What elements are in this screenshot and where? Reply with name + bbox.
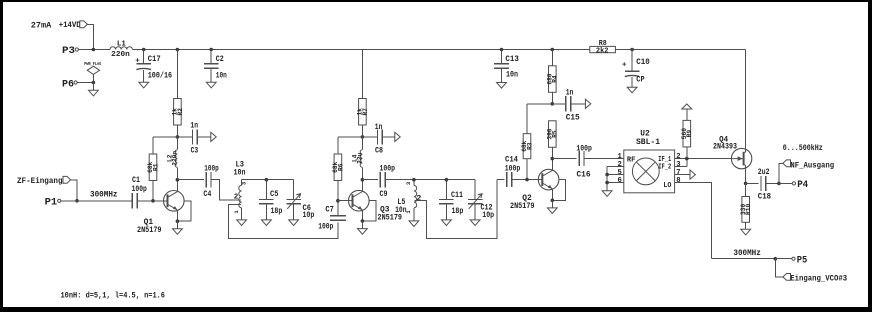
power flag PWR_FLAG <box>84 62 101 82</box>
ground (C2) <box>206 82 216 88</box>
svg-text:C16: C16 <box>577 172 591 180</box>
wire LO to P5 <box>711 258 775 260</box>
svg-text:C8: C8 <box>375 147 383 155</box>
wire <box>501 50 503 64</box>
wire LO route down <box>675 183 712 259</box>
svg-text:220n: 220n <box>172 151 179 166</box>
capacitor C4 <box>203 165 219 199</box>
svg-text:2N4393: 2N4393 <box>713 143 737 152</box>
svg-text:22u: 22u <box>357 152 364 163</box>
node unconnected arrow (C8) <box>395 132 400 141</box>
svg-text:C14: C14 <box>505 157 518 165</box>
wire <box>413 208 415 221</box>
wire bias to L4 <box>361 137 363 150</box>
wire to ground <box>92 83 94 91</box>
wire <box>265 180 267 200</box>
resistor R7 <box>357 99 369 126</box>
svg-text:C11: C11 <box>451 192 463 200</box>
node junction <box>209 48 213 52</box>
wire source to R10 <box>745 183 747 196</box>
svg-text:1n: 1n <box>190 123 198 131</box>
ground (U2) <box>602 191 612 197</box>
wire <box>552 103 565 105</box>
node junction <box>500 48 504 52</box>
svg-text:P6: P6 <box>62 78 74 90</box>
capacitor C17 <box>135 50 172 81</box>
wire rail L1 to R8 <box>132 49 589 51</box>
wire R5 to C16 line <box>551 147 553 158</box>
node Q3 bias node <box>361 135 365 139</box>
svg-text:NF_Ausgang: NF_Ausgang <box>790 162 834 171</box>
inductor L2 <box>167 150 179 168</box>
op-amp U2 (mixer SBL-1) <box>618 129 681 192</box>
wire to P5 <box>775 258 792 260</box>
capacitor C12 (trimmer) <box>468 180 495 220</box>
wire Q3 emitter <box>361 210 363 221</box>
wire C4 to L3 tap <box>211 180 241 201</box>
svg-text:2: 2 <box>618 161 622 169</box>
wire <box>177 136 192 138</box>
node label Eingang_VCO#3 <box>783 274 847 284</box>
ground (C5) <box>262 220 272 226</box>
svg-text:C17: C17 <box>148 56 161 64</box>
wire to P4 <box>779 182 792 184</box>
node unconnected arrow (C3) <box>211 132 216 141</box>
ground (C11) <box>442 220 452 226</box>
connector P4 <box>792 179 808 191</box>
wire R4 to divider <box>551 92 553 104</box>
svg-text:C15: C15 <box>566 114 580 122</box>
node Q3 emitter node <box>361 219 365 223</box>
node Q1 bias node <box>176 135 180 139</box>
wire Q3 emitter to ground <box>361 221 363 229</box>
svg-text:300MHz: 300MHz <box>90 191 118 200</box>
wire <box>143 50 145 64</box>
svg-text:C3: C3 <box>191 147 199 155</box>
node Q3 collector node <box>361 178 365 182</box>
wire bias node to R1 <box>153 136 177 138</box>
wire C10 to ground <box>631 77 633 87</box>
capacitor C9 <box>380 166 396 199</box>
resistor R1 <box>147 154 159 181</box>
wire C1 to Q1 base <box>137 200 167 202</box>
wire rail down to Q4 drain <box>745 50 747 152</box>
inductor L1 <box>110 40 132 59</box>
svg-text:10n: 10n <box>506 72 518 80</box>
wire bias node to R6 <box>338 136 363 138</box>
node C5 node <box>265 178 269 182</box>
wire U2 pin7 stub <box>675 174 690 176</box>
svg-text:100p: 100p <box>318 224 333 232</box>
power flag +14VD <box>59 20 88 30</box>
wire rail P3 to L1 <box>78 49 110 51</box>
svg-text:C10: C10 <box>636 59 650 67</box>
wire R10 to ground <box>745 222 747 229</box>
wire divider to R3 <box>527 103 552 105</box>
inductor L3 <box>233 161 247 220</box>
svg-text:2: 2 <box>676 153 680 161</box>
node L5 top node <box>412 178 416 182</box>
resistor R6 <box>332 154 344 181</box>
capacitor C6 (trimmer) <box>286 180 314 220</box>
ground (Q1) <box>173 229 183 235</box>
wire bias to R6 <box>337 137 339 154</box>
svg-text:1: 1 <box>618 153 623 161</box>
wire <box>293 180 295 200</box>
wire L3 tap to C7 <box>229 205 338 239</box>
resistor R9 <box>681 120 693 146</box>
wire to VCO flag <box>775 259 783 277</box>
capacitor C14 <box>505 157 521 188</box>
svg-text:R10: R10 <box>745 204 752 215</box>
wire <box>631 50 633 71</box>
svg-text:2u2: 2u2 <box>758 169 770 177</box>
ground (C6) <box>289 220 299 226</box>
wire Q1 emitter <box>176 210 178 221</box>
wire C7 to base node <box>337 201 339 216</box>
wire U2 IF_1 to Q4 gate <box>675 158 732 160</box>
wire divider to R3 <box>526 104 528 134</box>
node IF node <box>685 157 689 161</box>
wire <box>241 208 243 220</box>
node unconnected arrow (U2 pin7) <box>690 170 695 179</box>
wire C12 to ground <box>474 204 476 220</box>
svg-text:C9: C9 <box>380 191 388 199</box>
capacitor C2 <box>204 50 227 81</box>
wire C11 to ground <box>445 204 447 220</box>
wire Q2 collector <box>551 159 553 171</box>
wire U2 pin6 stub <box>607 182 624 184</box>
wire C3 to arrow <box>197 136 211 138</box>
svg-text:C1: C1 <box>132 177 140 185</box>
node Q1 emitter node <box>176 219 180 223</box>
resistor R3 <box>521 134 533 159</box>
node junction <box>92 48 96 52</box>
node C11 node <box>445 178 449 182</box>
ground (C17) <box>139 82 149 88</box>
connector P6 <box>62 78 77 90</box>
svg-text:18p: 18p <box>452 208 464 216</box>
svg-text:100p: 100p <box>505 165 521 173</box>
svg-text:100p: 100p <box>576 146 592 154</box>
svg-text:1n: 1n <box>375 124 383 132</box>
svg-text:R5: R5 <box>552 130 559 138</box>
node Q3 base node <box>336 199 340 203</box>
wire R2 to bias node <box>176 125 178 137</box>
resistor R10 <box>740 197 752 223</box>
power symbol (above R9) <box>682 104 692 109</box>
ground (L5) <box>409 221 419 227</box>
wire <box>362 136 377 138</box>
node junction <box>92 81 96 85</box>
wire C18 to P4 <box>766 182 779 184</box>
resistor R4 <box>547 66 559 93</box>
ground (Q2) <box>547 208 557 214</box>
node junction <box>176 48 180 52</box>
wire Q2 case loop <box>552 180 565 201</box>
ground (C12) <box>470 220 480 226</box>
transistor Q3 <box>349 190 403 222</box>
inductor L4 <box>352 150 364 168</box>
node junction <box>551 48 555 52</box>
svg-text:C4: C4 <box>203 191 211 199</box>
capacitor C5 <box>259 180 282 216</box>
svg-text:R7: R7 <box>362 108 369 116</box>
capacitor C7 <box>318 206 346 231</box>
svg-text:100p: 100p <box>132 186 147 194</box>
wire C16 to U2 pin1 <box>584 158 624 160</box>
node label NF_Ausgang <box>783 160 834 171</box>
wire bias to R1 <box>152 137 154 154</box>
svg-text:C2: C2 <box>216 56 224 64</box>
wire tank1 top <box>242 179 294 181</box>
svg-text:10p: 10p <box>482 212 494 220</box>
svg-text:R2: R2 <box>177 108 184 116</box>
wire R9 to power <box>686 109 688 120</box>
wire collector to C4 <box>177 179 203 181</box>
node R1-base junction <box>151 199 155 203</box>
wire C8 to arrow <box>382 136 395 138</box>
svg-text:3: 3 <box>676 161 680 169</box>
capacitor C11 <box>439 180 463 216</box>
transistor Q1 <box>137 191 184 236</box>
svg-text:R1: R1 <box>152 163 159 171</box>
connector P1 <box>45 197 61 209</box>
ground (L3) <box>237 220 247 226</box>
wire to C14 <box>497 179 505 181</box>
svg-text:P4: P4 <box>797 179 808 191</box>
resistor R2 <box>172 99 184 126</box>
wire collector to C9 <box>362 179 378 181</box>
wire Q2 emitter <box>551 189 553 200</box>
svg-text:10nH: d=5,1, l=4.5, n=1.6: 10nH: d=5,1, l=4.5, n=1.6 <box>61 291 166 301</box>
resistor R5 <box>547 121 559 148</box>
wire to Q3 base <box>338 200 353 202</box>
node junction <box>605 173 609 177</box>
svg-text:C13: C13 <box>505 56 519 64</box>
svg-text:P1: P1 <box>45 197 58 209</box>
svg-text:IF_2: IF_2 <box>658 164 671 172</box>
wire rail R8 to Q4 <box>615 49 745 51</box>
svg-text:+: + <box>622 61 627 69</box>
svg-text:7: 7 <box>676 169 680 177</box>
connector P3 <box>62 45 78 57</box>
capacitor C1 <box>132 177 147 208</box>
svg-text:P5: P5 <box>797 254 808 266</box>
wire ZF to input line <box>71 180 77 201</box>
node R3-base node <box>525 178 529 182</box>
wire U2 IF_2 stub <box>675 166 687 168</box>
wire C13 to ground <box>501 68 503 82</box>
svg-text:L1: L1 <box>117 40 126 48</box>
svg-text:6: 6 <box>618 177 622 185</box>
wire C14 to Q2 base <box>512 179 543 181</box>
svg-text:L3: L3 <box>236 161 245 169</box>
node junction <box>630 48 634 52</box>
wire P6 to ground node <box>77 82 93 84</box>
wire L4 to collector <box>361 167 363 179</box>
svg-text:220n: 220n <box>111 51 130 59</box>
capacitor C16 <box>576 146 592 180</box>
wire C6 to ground <box>293 204 295 220</box>
wire C17 to ground <box>143 70 145 83</box>
svg-text:300MHz: 300MHz <box>733 249 761 258</box>
svg-text:LO: LO <box>663 182 671 190</box>
svg-text:1: 1 <box>233 210 240 214</box>
node Q1 collector node <box>176 178 180 182</box>
svg-text:5: 5 <box>618 169 622 177</box>
svg-text:100p: 100p <box>380 166 396 174</box>
wire L2 to collector <box>176 167 178 179</box>
wire <box>474 180 476 200</box>
wire Q3 case loop <box>362 201 375 221</box>
node NF node <box>777 182 781 186</box>
inductor L5 <box>395 180 421 221</box>
wire L5 tap to C14 <box>414 180 497 239</box>
wire bias to L2 <box>176 137 178 150</box>
ground (C13) <box>497 83 507 89</box>
ground (C10) <box>627 87 637 93</box>
wire <box>413 180 415 186</box>
node junction <box>142 48 146 52</box>
wire Q1 emitter to ground <box>176 221 178 229</box>
capacitor C3 <box>177 123 198 156</box>
wire <box>241 180 243 186</box>
svg-text:2k2: 2k2 <box>596 48 609 56</box>
transistor Q4 <box>713 135 752 168</box>
node Q2 collector node <box>551 157 555 161</box>
wire to NF flag <box>779 163 783 183</box>
svg-text:R6: R6 <box>337 163 344 171</box>
wire P1 to C1 <box>61 200 132 202</box>
wire Q4 source <box>745 165 747 183</box>
svg-text:10p: 10p <box>303 212 315 220</box>
wire R7 to bias node <box>361 125 363 137</box>
capacitor C15 <box>552 89 580 122</box>
wire R3 to Q2 base <box>526 159 528 180</box>
svg-text:ZF-Eingang: ZF-Eingang <box>17 177 63 186</box>
wire R9 to IF node <box>686 147 688 159</box>
wire C5 to ground <box>265 204 267 220</box>
svg-text:2: 2 <box>416 193 421 203</box>
svg-text:Eingang_VCO#3: Eingang_VCO#3 <box>790 275 847 284</box>
svg-text:C18: C18 <box>758 194 771 202</box>
wire <box>445 180 447 200</box>
node Q2 emitter node <box>551 199 555 203</box>
svg-text:C5: C5 <box>270 191 279 199</box>
svg-text:10n: 10n <box>216 72 227 80</box>
wire rail to R4 <box>551 50 553 66</box>
wire Q1 collector <box>176 180 178 192</box>
connector P5 <box>792 254 807 266</box>
capacitor C8 <box>362 124 383 156</box>
svg-text:R3: R3 <box>526 142 533 150</box>
wire R1 to base <box>152 181 154 201</box>
svg-text:2N5179: 2N5179 <box>510 202 535 211</box>
wire U2 ground bus <box>606 167 608 191</box>
svg-text:P3: P3 <box>62 45 75 57</box>
wire Q1 case loop <box>177 201 190 221</box>
svg-text:100/16: 100/16 <box>148 72 173 80</box>
transistor Q2 <box>510 169 559 211</box>
ground (Q3) <box>358 229 368 235</box>
wire source to C18 <box>746 182 759 184</box>
wire rail to R2 <box>176 50 178 99</box>
wire Q3 collector <box>361 180 363 192</box>
node LO node <box>774 257 778 261</box>
node junction <box>605 181 609 185</box>
svg-text:C7: C7 <box>325 206 334 214</box>
svg-text:3: 3 <box>405 181 412 185</box>
svg-text:8: 8 <box>676 177 680 185</box>
wire Q2 collector to C16 <box>552 158 576 160</box>
resistor R8 <box>590 40 616 55</box>
ground (P6) <box>89 90 99 96</box>
svg-text:+14VD: +14VD <box>59 20 81 30</box>
svg-text:R9: R9 <box>686 130 693 138</box>
svg-text:U2: U2 <box>640 129 650 138</box>
svg-text:SBL-1: SBL-1 <box>636 138 660 147</box>
svg-text:18p: 18p <box>271 208 283 216</box>
svg-text:0...500kHz: 0...500kHz <box>783 144 823 153</box>
svg-text:100p: 100p <box>204 165 219 173</box>
svg-text:R4: R4 <box>552 75 559 83</box>
svg-text:+: + <box>135 57 140 65</box>
svg-text:27mA: 27mA <box>31 20 52 30</box>
wire IF_2 riser <box>686 159 688 167</box>
wire C9 to tank2 <box>385 179 475 181</box>
svg-text:CP: CP <box>636 77 645 85</box>
svg-text:RF: RF <box>627 157 636 165</box>
capacitor C18 <box>758 169 771 202</box>
wire C2 to ground <box>210 68 212 82</box>
wire rail to R7 <box>361 50 363 99</box>
wire Q2 emitter to ground <box>551 200 553 208</box>
wire U2 pin5 stub <box>607 174 624 176</box>
ground (R10) <box>741 229 751 235</box>
wire C15 to arrow <box>571 103 586 105</box>
node Q4 source node <box>744 182 748 186</box>
svg-text:2N5179: 2N5179 <box>137 226 162 235</box>
node divider node <box>551 102 555 106</box>
wire <box>210 50 212 64</box>
node unconnected arrow (C15) <box>585 99 590 108</box>
svg-text:L5: L5 <box>397 199 405 207</box>
wire +14VD to rail <box>87 24 93 49</box>
svg-text:1n: 1n <box>566 89 574 97</box>
node label ZF-Eingang <box>17 176 71 186</box>
wire R6 to base node <box>337 181 339 201</box>
capacitor C13 <box>494 50 519 80</box>
svg-text:2: 2 <box>234 194 239 202</box>
svg-text:10n: 10n <box>234 170 246 178</box>
node input junction <box>75 199 79 203</box>
capacitor C10 <box>622 50 650 85</box>
wire U2 pin2 stub <box>607 166 624 168</box>
